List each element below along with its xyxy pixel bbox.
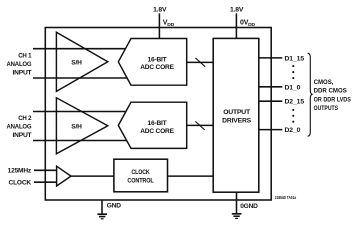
svg-text:16-BIT: 16-BIT (148, 57, 167, 64)
svg-text:1.8V: 1.8V (153, 7, 167, 14)
svg-text:INPUT: INPUT (13, 69, 32, 76)
svg-text:S/H: S/H (71, 123, 82, 130)
svg-text:CH 1: CH 1 (18, 53, 32, 60)
svg-text:125MHz: 125MHz (8, 168, 32, 175)
svg-text:D1_15: D1_15 (285, 55, 305, 62)
svg-text:D2_0: D2_0 (285, 127, 301, 134)
svg-text:S/H: S/H (71, 59, 82, 66)
svg-text:ADC CORE: ADC CORE (140, 128, 174, 135)
svg-text:GND: GND (107, 203, 121, 210)
svg-text:ANALOG: ANALOG (7, 61, 32, 68)
svg-text:OR DDR LVDS: OR DDR LVDS (314, 96, 352, 103)
svg-text:21854D TA01a: 21854D TA01a (275, 195, 297, 200)
svg-text:D2_15: D2_15 (285, 99, 305, 106)
svg-text:CMOS,: CMOS, (314, 79, 334, 86)
svg-text:OUTPUTS: OUTPUTS (314, 105, 339, 112)
svg-text:DRIVERS: DRIVERS (222, 117, 251, 124)
svg-text:INPUT: INPUT (13, 132, 32, 139)
svg-text:CLOCK: CLOCK (9, 180, 32, 187)
svg-text:16-BIT: 16-BIT (148, 120, 167, 127)
svg-text:1.8V: 1.8V (230, 7, 244, 14)
svg-text:OUTPUT: OUTPUT (223, 109, 251, 116)
svg-text:ANALOG: ANALOG (7, 124, 32, 131)
svg-text:DDR CMOS: DDR CMOS (314, 88, 348, 95)
svg-text:D1_0: D1_0 (285, 84, 301, 91)
svg-text:CONTROL: CONTROL (127, 178, 153, 185)
svg-text:0GND: 0GND (240, 203, 258, 210)
svg-text:ADC CORE: ADC CORE (140, 64, 174, 71)
svg-text:CH 2: CH 2 (18, 115, 32, 122)
svg-text:CLOCK: CLOCK (131, 169, 149, 176)
